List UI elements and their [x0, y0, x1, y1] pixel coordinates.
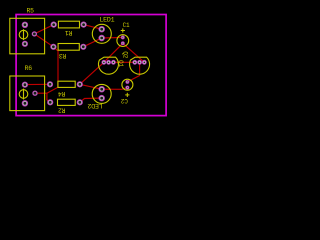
pad R3.2 — [81, 44, 86, 49]
pad R5.1 — [22, 22, 28, 28]
pad Q2.2 — [107, 60, 111, 64]
pad LED1.anode — [99, 26, 105, 32]
pad Q2.3 — [111, 60, 115, 64]
pad R2.2 — [77, 100, 82, 105]
LED D2 outline — [92, 84, 111, 103]
pad R1.1 — [51, 22, 56, 27]
wire R3.2-LED1.cathode — [83, 38, 101, 47]
pad Q1.2 — [138, 60, 142, 64]
wire R5.wiper-R3.1 — [34, 34, 53, 47]
potentiometer R6 outline — [10, 76, 45, 111]
pad R1.2 — [81, 22, 86, 27]
capacitor C1 outline — [117, 28, 129, 46]
resistor R4 — [58, 81, 75, 87]
pad C2.plus — [126, 80, 129, 83]
wire R5.wiper-R1.1 — [34, 25, 53, 34]
pad LED1.cathode — [99, 35, 105, 41]
pad R6.2 wiper — [33, 91, 38, 96]
pad R3.1 — [51, 44, 56, 49]
wire R2.2-LED2.cathode — [80, 98, 102, 102]
svg-text:R3: R3 — [59, 52, 67, 59]
svg-text:R6: R6 — [25, 65, 33, 72]
wire R4.2-LED2.anode — [80, 84, 102, 89]
pad C1.minus — [121, 42, 124, 45]
wire R1.2-LED1.anode — [84, 25, 102, 30]
svg-text:R4: R4 — [58, 90, 66, 97]
pad R5.2 wiper — [32, 32, 37, 37]
svg-text:Q1: Q1 — [117, 60, 124, 67]
pad Q1.1 — [133, 60, 137, 64]
pad C1.plus — [121, 36, 124, 39]
svg-text:R5: R5 — [27, 8, 35, 15]
pad R2.1 — [48, 100, 53, 105]
capacitor C2 outline — [122, 79, 133, 97]
wire R6.wiper-junction — [35, 92, 47, 94]
transistor Q1 outline — [130, 57, 150, 74]
LED D1 outline — [92, 24, 111, 43]
pad R4.1 — [47, 82, 52, 87]
wire Q2.pad3-Q1.pad1 — [113, 61, 134, 63]
pad LED2.cathode — [99, 95, 105, 101]
svg-text:R1: R1 — [65, 29, 73, 36]
pad Q1.3 — [142, 60, 146, 64]
svg-text:C2: C2 — [120, 97, 127, 104]
pad R4.2 — [77, 82, 82, 87]
svg-text:LED1: LED1 — [99, 17, 114, 24]
pad LED2.anode — [99, 86, 105, 92]
wire C1.minus-Q1.pad3 — [123, 43, 145, 62]
pad C2.minus — [126, 86, 129, 89]
svg-text:R2: R2 — [58, 107, 66, 114]
wire LED2.anode-C2.minus — [102, 88, 128, 90]
board edge outline — [16, 15, 166, 116]
pad R6.3 — [22, 101, 28, 107]
transistor Q2 outline — [98, 57, 118, 74]
wire R4.2-Q2.pad1 — [80, 62, 104, 84]
resistor R3 — [58, 44, 79, 51]
wire Q1.pad2-C2.plus — [127, 62, 139, 82]
svg-text:Q2: Q2 — [121, 51, 128, 58]
wire C1.minus-Q2.pad1 — [104, 43, 123, 62]
pad R6.1 — [22, 82, 27, 87]
wire R3.1-junction-R2.1 — [47, 47, 58, 103]
resistor R2 — [58, 99, 76, 105]
svg-text:LED2: LED2 — [87, 102, 102, 109]
resistor R1 — [58, 21, 79, 28]
svg-text:C1: C1 — [123, 22, 130, 29]
wire R6.1-R4.1 — [25, 83, 50, 85]
pad Q2.1 — [102, 60, 106, 64]
wire LED1.cathode-C1.plus — [102, 36, 123, 39]
potentiometer R5 outline — [10, 18, 45, 54]
pad R5.3 — [22, 41, 27, 46]
